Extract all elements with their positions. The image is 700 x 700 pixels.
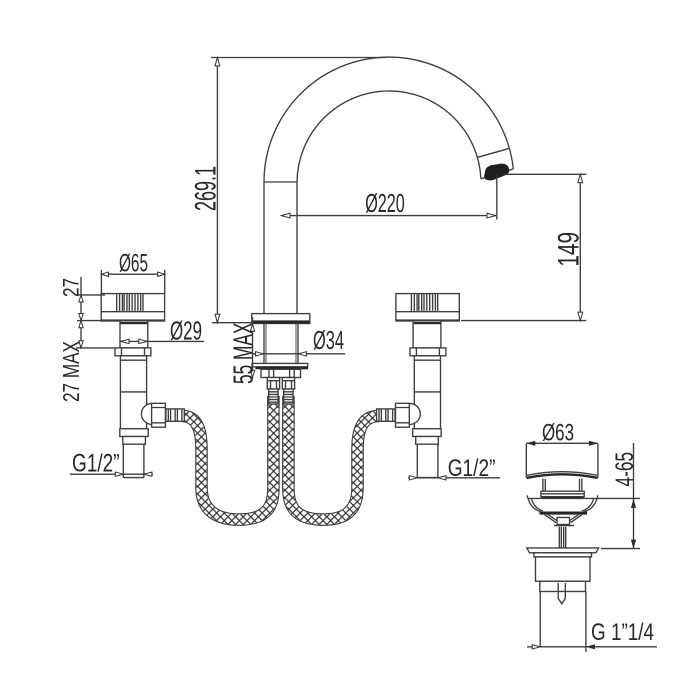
arrow 4-65 bottom [631, 540, 636, 549]
drain body [536, 557, 591, 581]
drain neck [543, 479, 582, 492]
27 extension top [77, 294, 105, 296]
left valve elbow ball [141, 403, 162, 424]
svg-text:G1/2”: G1/2” [72, 450, 120, 477]
spout end face [481, 169, 513, 179]
dimension G1/2 left line [70, 473, 153, 475]
arrow 269.1 bottom [215, 314, 220, 323]
dimension 55MAX line [252, 317, 254, 378]
arrow 27 bottom [79, 314, 83, 321]
arrow O220 right [487, 213, 496, 218]
drain funnel rim [528, 495, 598, 498]
drain collar shadow [542, 497, 584, 499]
drain funnel tier1 [528, 499, 596, 512]
drain funnel tier2 [545, 515, 583, 523]
svg-text:Ø29: Ø29 [170, 316, 202, 346]
arrow 27 top [79, 295, 83, 302]
dimension O29 line [121, 340, 204, 342]
arrow 269.1 top [215, 58, 220, 67]
inlet stub right [290, 369, 295, 377]
dimension O34 line [253, 353, 346, 355]
arrow O34 right [298, 352, 306, 356]
arrow O63 left [526, 441, 535, 446]
arrow G1/2R right [438, 476, 446, 480]
svg-text:27 MAX: 27 MAX [58, 341, 84, 402]
mounting bracket [261, 369, 301, 377]
spout tip extension [503, 173, 586, 175]
hose nut right [282, 378, 294, 405]
left valve body seams [120, 360, 146, 392]
spout outer arc [264, 57, 513, 182]
drain stem [559, 527, 565, 548]
27 extension bottom [77, 320, 105, 322]
deck extension right [461, 320, 586, 322]
dimension O63 line [526, 442, 598, 444]
drain nut band [540, 581, 586, 591]
dimension 4-65 line [633, 443, 635, 549]
dimension O65 line [101, 273, 164, 275]
svg-text:G 1”1/4: G 1”1/4 [591, 619, 654, 646]
left valve stem [120, 321, 148, 348]
flexible hose left (braided) [182, 396, 273, 520]
arrow O220 left [281, 213, 290, 218]
svg-text:Ø34: Ø34 [313, 325, 344, 355]
left valve hose ferrule [166, 409, 184, 421]
arrow 4-65 top [631, 499, 636, 508]
arrow O29 right [139, 339, 147, 343]
drain deck flange lower [534, 553, 592, 557]
svg-text:Ø63: Ø63 [542, 419, 574, 446]
drain pin [558, 583, 565, 604]
drain hub [557, 518, 570, 525]
4-65 extension top [597, 497, 640, 499]
svg-text:Ø220: Ø220 [365, 190, 405, 218]
right valve stem shadow [414, 322, 441, 324]
right valve nut [410, 348, 446, 356]
right valve body seams [414, 360, 440, 392]
left valve handle [101, 294, 164, 321]
dimension O220 line [281, 215, 495, 217]
spout base flange [252, 314, 310, 324]
arrow 149 top [578, 174, 583, 183]
arrow O63 right [589, 441, 598, 446]
O65 extension lines [101, 270, 164, 294]
spout tube seam [264, 181, 297, 183]
svg-text:27: 27 [58, 278, 83, 297]
right valve handle [396, 294, 459, 321]
svg-text:4-65: 4-65 [611, 452, 639, 487]
svg-text:Ø65: Ø65 [119, 250, 148, 278]
left valve stem shadow [120, 322, 147, 324]
right valve stem [413, 321, 441, 348]
dimension 27 / 27MAX line [80, 277, 82, 348]
right valve locknut [413, 429, 441, 437]
aerator [484, 164, 509, 181]
right valve elbow hex [396, 403, 410, 427]
left valve elbow hex [152, 403, 166, 427]
dimension 269.1 top extension [211, 57, 386, 59]
left valve locknut [120, 429, 148, 437]
arrow G1/2L right [144, 472, 152, 476]
arrow 55MAX top [250, 324, 254, 331]
27MAX extension bottom [76, 347, 115, 349]
O220 tip extension vertical [496, 175, 498, 220]
right valve hose ferrule [377, 409, 395, 421]
arrow G1/2L left [115, 472, 123, 476]
left valve body [120, 356, 146, 429]
4-65 extension bottom [601, 548, 640, 550]
hose nut left [267, 378, 279, 405]
dimension 149 line [579, 174, 581, 320]
spout tip seam [478, 148, 510, 157]
base column [264, 324, 298, 364]
svg-text:269.1: 269.1 [190, 166, 223, 211]
arrow G1 1/4 left [532, 645, 540, 649]
left valve tailpipe [123, 444, 144, 478]
inlet stub left [269, 369, 274, 377]
right valve elbow ball [399, 403, 420, 424]
arrow 27MAX bottom [79, 341, 83, 348]
spout tube left edge [263, 182, 265, 314]
arrow O29 left [121, 339, 129, 343]
right valve tailpipe [417, 444, 438, 478]
spout tube right edge [296, 182, 298, 314]
arrow 55MAX bottom [250, 370, 254, 377]
right valve body [414, 356, 440, 429]
drain cap underside [527, 472, 597, 476]
spout inner arc [297, 91, 481, 182]
drain tailpipe [540, 592, 586, 653]
drain deck flange [527, 548, 599, 553]
drain collar [541, 491, 584, 497]
drain sub flange [554, 525, 574, 527]
svg-text:G1/2”: G1/2” [448, 455, 496, 482]
arrow G1/2R left [409, 476, 417, 480]
dimension 269.1 bottom extension [212, 322, 252, 324]
arrow 149 bottom [578, 312, 583, 321]
spout base flange dark underside [252, 320, 309, 323]
drain funnel ledge [540, 512, 588, 515]
escutcheon dark underside [255, 367, 308, 370]
dimension G1/2 right line [408, 477, 500, 479]
flexible hose right (braided) [288, 396, 379, 520]
dimension 269.1 line [216, 58, 218, 323]
arrow O65 left [101, 272, 108, 276]
arrow 27MAX top [79, 321, 83, 328]
dimension G1 1/4 line [527, 646, 657, 648]
drain cap [526, 443, 598, 477]
escutcheon plate [252, 363, 308, 366]
svg-text:149: 149 [553, 232, 586, 267]
arrow O65 right [158, 272, 165, 276]
arrow G1 1/4 right [586, 644, 595, 649]
left valve nut [115, 348, 151, 356]
arrow O34 left [256, 352, 264, 356]
